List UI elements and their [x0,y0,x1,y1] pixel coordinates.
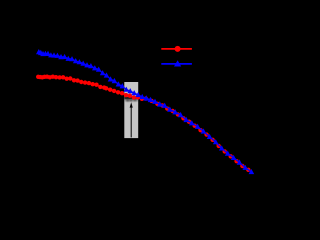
red series markers [36,75,251,173]
arrow head [130,102,133,107]
annotation dark bar [124,97,138,100]
red series line [38,77,248,170]
gray highlight band [124,82,138,138]
legend red entry [161,48,192,50]
legend blue entry [161,63,192,65]
annotation smudge [125,99,138,101]
arrow shaft [130,107,132,138]
blue series line [39,52,252,172]
blue series markers [36,49,254,174]
